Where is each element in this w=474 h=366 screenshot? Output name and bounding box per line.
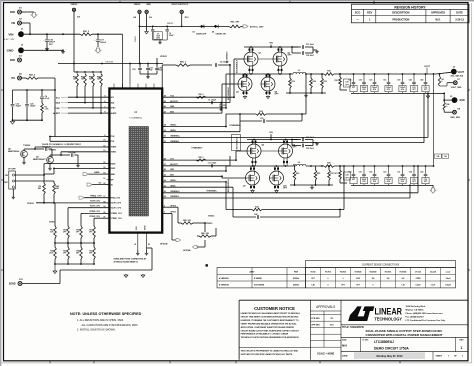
svg-text:C6: C6 <box>169 33 171 35</box>
approvals box divider <box>340 300 342 360</box>
svg-text:VOUT0_CFG: VOUT0_CFG <box>90 201 101 203</box>
wire VSENSE0+ <box>162 136 428 138</box>
resistor R19 <box>289 78 292 88</box>
U4 exposed pad hatch <box>129 127 149 217</box>
Q6 source legs <box>283 158 285 166</box>
svg-text:W.S.: W.S. <box>330 324 334 326</box>
jumper JP1 <box>9 171 16 189</box>
svg-text:425KHz: 425KHz <box>293 284 299 287</box>
svg-text:OPT: OPT <box>63 232 66 234</box>
svg-text:REV: REV <box>367 12 372 15</box>
svg-text:100uF: 100uF <box>372 87 377 89</box>
pullup rail wire <box>73 64 75 73</box>
current sense table marker dot <box>206 264 208 266</box>
svg-text:BSC050NE2LS: BSC050NE2LS <box>237 137 239 150</box>
resistor R2 1.1K <box>41 103 44 113</box>
Q3 source legs <box>242 91 244 95</box>
svg-text:CONVERTER WITH DIGITAL POWER M: CONVERTER WITH DIGITAL POWER MANAGEMENT <box>365 333 442 337</box>
svg-text:R50_2: R50_2 <box>83 31 90 33</box>
wire SGND route <box>22 283 60 285</box>
svg-text:SGND AND PGND CONNECTED AT: SGND AND PGND CONNECTED AT <box>114 258 147 261</box>
svg-text:18: 18 <box>103 206 105 208</box>
resistor R47 10K <box>84 74 87 87</box>
terminal J5 GND <box>452 97 458 103</box>
ground below C18 <box>46 47 48 48</box>
svg-text:SYNC: SYNC <box>111 108 117 110</box>
wire gate Q2 link <box>258 58 273 60</box>
svg-text:C39: C39 <box>397 80 400 82</box>
wire VOUT_SNS <box>447 82 453 84</box>
svg-text:DEMO CIRCUIT 1753A: DEMO CIRCUIT 1753A <box>374 346 409 350</box>
wire E4 down to VDD33 rail <box>73 11 75 63</box>
capacitor C11 boost <box>210 164 212 167</box>
phase0 vin rail <box>244 46 298 48</box>
size row divider <box>341 336 468 338</box>
svg-text:100uF: 100uF <box>362 179 367 181</box>
svg-text:TSNS0: TSNS0 <box>111 147 117 149</box>
transistor Q3 <box>238 77 252 91</box>
svg-text:CURRENT SENSE CONNECTIONS: CURRENT SENSE CONNECTIONS <box>362 265 400 267</box>
svg-text:C23: C23 <box>383 172 386 174</box>
svg-text:SCL: SCL <box>56 97 61 99</box>
wire VSENSE1- <box>162 197 410 199</box>
output cap bank top labels <box>350 86 357 92</box>
ground Q3 source <box>244 95 246 98</box>
ground under intvcc caps <box>153 39 168 41</box>
transistor Q2 OPT <box>273 52 287 66</box>
svg-text:100: 100 <box>387 278 390 280</box>
svg-text:5: 5 <box>104 96 105 98</box>
svg-text:SGND: SGND <box>9 284 16 286</box>
gray ground arrow below C17 <box>95 48 101 53</box>
svg-text:OPT: OPT <box>412 181 415 183</box>
svg-text:L1,L2: L1,L2 <box>446 272 450 274</box>
svg-text:C38 10uF: C38 10uF <box>306 55 314 57</box>
svg-text:C11: C11 <box>397 172 400 174</box>
resistor R14 sense path <box>162 126 226 128</box>
svg-text:100uF: 100uF <box>386 179 391 181</box>
svg-text:100pF: 100pF <box>30 106 36 108</box>
transistor Q8 MMBT3906L <box>21 151 28 158</box>
capacitor C38 10uF <box>291 47 293 53</box>
wire VIN phase0 down <box>270 45 272 47</box>
svg-text:VOUT1_CFG: VOUT1_CFG <box>90 206 101 208</box>
VOUT rail wire <box>352 73 436 75</box>
svg-text:16: 16 <box>103 167 105 169</box>
svg-text:C42: C42 <box>254 213 257 216</box>
svg-text:C13: C13 <box>260 118 263 120</box>
terminal E11 SGND <box>18 282 22 286</box>
wire VSENSE0- <box>162 142 424 144</box>
wire J2 ground rail <box>24 49 63 51</box>
current sense table key box <box>217 268 306 288</box>
ground triangle comp <box>12 120 14 121</box>
current sense table title cell <box>306 261 456 268</box>
svg-text:TECHNOLOGY APPLICATIONS ENGINE: TECHNOLOGY APPLICATIONS ENGINEERING FOR … <box>241 336 300 339</box>
date row divider <box>341 351 468 353</box>
svg-text:W.S.: W.S. <box>435 18 441 21</box>
phase0 SW rail <box>244 73 293 75</box>
svg-text:0: 0 <box>442 81 443 83</box>
config bottom bus wire <box>55 263 94 265</box>
svg-text:R13: R13 <box>89 230 92 232</box>
svg-text:0.002: 0.002 <box>356 278 360 280</box>
svg-text:15: 15 <box>103 162 105 164</box>
svg-text:25V: 25V <box>49 44 53 46</box>
svg-text:BSC010NE2LSI: BSC010NE2LSI <box>228 179 230 192</box>
svg-text:OPT: OPT <box>345 85 348 87</box>
resistor R48 10K <box>92 74 95 87</box>
svg-text:VOUT: VOUT <box>458 72 465 74</box>
svg-text:R48_10K: R48_10K <box>183 219 192 222</box>
current sense table value box <box>306 268 456 288</box>
svg-text:VDD33: VDD33 <box>206 223 213 225</box>
svg-text:10: 10 <box>103 140 105 142</box>
svg-text:THIS CIRCUIT IS PROPRIETARY TO: THIS CIRCUIT IS PROPRIETARY TO LINEAR TE… <box>241 349 299 352</box>
svg-text:D4: D4 <box>212 30 214 33</box>
svg-text:R33: R33 <box>63 251 66 253</box>
resistor R56 gate <box>196 96 206 98</box>
capacitor C27 1uF <box>147 64 149 68</box>
svg-text:D3: D3 <box>193 31 195 33</box>
resistor R25 <box>314 170 317 180</box>
svg-text:R56_0: R56_0 <box>199 94 204 96</box>
terminal E8 GND_SNS <box>453 110 457 114</box>
svg-text:C45: C45 <box>420 79 423 82</box>
resistor R50_OPT <box>229 25 241 28</box>
svg-text:OPT: OPT <box>89 232 92 234</box>
svg-text:0: 0 <box>328 278 329 280</box>
svg-text:GND: GND <box>10 60 15 62</box>
wire SDA <box>68 102 109 104</box>
svg-text:SIZE: SIZE <box>342 339 347 341</box>
revision history table box <box>352 4 470 23</box>
svg-text:GPIO1B: GPIO1B <box>160 244 168 246</box>
wire BOOST1 <box>162 165 230 167</box>
svg-text:APPLICATION. COMPONENT SUBSTIT: APPLICATION. COMPONENT SUBSTITUTION AND … <box>241 326 295 329</box>
svg-text:SCALE = NONE: SCALE = NONE <box>317 353 335 356</box>
svg-text:R24: R24 <box>313 80 316 83</box>
output cap bank bottom stubs <box>353 184 355 186</box>
svg-text:SUPPLIED FOR USE WITH LINEAR T: SUPPLIED FOR USE WITH LINEAR TECHNOLOGY … <box>241 353 293 356</box>
svg-text:VIN: VIN <box>269 43 273 45</box>
svg-text:DCR SENSE: DCR SENSE <box>254 285 265 287</box>
wire SCL <box>68 96 109 98</box>
svg-text:VDD33: VDD33 <box>49 221 56 223</box>
logo LT glyph <box>348 306 365 321</box>
capacitor C4 4.7nF <box>41 90 43 96</box>
wire VIN rail down to IC <box>122 34 124 88</box>
approvals grid <box>310 310 341 312</box>
svg-text:C24: C24 <box>409 171 412 174</box>
capacitor C13 sense <box>162 131 240 133</box>
Q3 drain legs <box>242 74 244 77</box>
capacitor C5 10uF <box>152 26 154 29</box>
svg-text:LTC3880EUJ: LTC3880EUJ <box>374 340 394 344</box>
vertical text BSC050NE2LS phase1 <box>232 135 241 151</box>
svg-text:A SINGLE NODE NEAR U1: A SINGLE NODE NEAR U1 <box>114 261 140 264</box>
wire BG0 gate bus <box>162 112 222 114</box>
svg-text:ITH0: ITH0 <box>111 136 115 138</box>
title block top border <box>239 299 468 301</box>
ground caps phase1 <box>313 142 317 144</box>
capacitor C18 100uF 25V <box>46 34 48 39</box>
Q2 drain legs <box>277 47 279 52</box>
svg-text:R11,R31: R11,R31 <box>385 272 392 274</box>
wire sense to vout <box>334 73 352 75</box>
svg-text:C30 10uF: C30 10uF <box>306 137 314 139</box>
Q10 source legs <box>274 185 276 189</box>
svg-text:17: 17 <box>103 196 105 198</box>
svg-text:VIN: VIN <box>11 23 15 25</box>
Q10 drain legs <box>274 166 276 171</box>
svg-text:R18,R24: R18,R24 <box>355 271 362 274</box>
svg-text:EXTVCC_DRV: EXTVCC_DRV <box>250 27 264 29</box>
capacitor C20 100pF <box>26 90 28 104</box>
svg-text:C28: C28 <box>345 175 348 177</box>
svg-text:MMBT3906L: MMBT3906L <box>8 151 20 153</box>
svg-text:100uF: 100uF <box>400 179 405 181</box>
svg-text:TITLE: SCHEMATIC: TITLE: SCHEMATIC <box>342 326 364 329</box>
svg-text:R18: R18 <box>334 80 337 82</box>
svg-text:Milpitas, CA 95035: Milpitas, CA 95035 <box>406 309 425 312</box>
svg-text:COL: COL <box>412 87 415 89</box>
svg-text:VOUT1_CFG: VOUT1_CFG <box>111 207 122 209</box>
svg-text:SDA: SDA <box>56 102 61 105</box>
svg-text:CP-C20: CP-C20 <box>415 272 421 274</box>
wire BG1 gate bus <box>162 175 222 177</box>
ground phase0 sense <box>305 94 307 95</box>
ground under bypass caps <box>140 73 157 75</box>
wire BOOST0 <box>162 102 230 104</box>
svg-text:LTC Confidential-For Customer: LTC Confidential-For Customer Use Only <box>406 319 447 322</box>
svg-text:1.1K: 1.1K <box>45 109 50 111</box>
wire GPIO0 <box>162 206 178 208</box>
title row divider <box>341 324 468 326</box>
svg-text:R50_1: R50_1 <box>180 62 187 64</box>
svg-text:R SENSE: R SENSE <box>254 278 263 280</box>
resistor R32 sense path <box>162 181 226 183</box>
svg-text:TECHNOLOGY: TECHNOLOGY <box>375 317 403 322</box>
svg-text:C33: C33 <box>369 80 372 82</box>
svg-text:N/A: N/A <box>342 344 348 348</box>
svg-text:100: 100 <box>372 278 375 280</box>
wire ALERT <box>68 112 109 114</box>
svg-text:C16: C16 <box>383 80 386 82</box>
capacitor C32 10uF <box>291 140 293 146</box>
svg-text:TSNS0: TSNS0 <box>23 145 31 147</box>
ground phase1 sense <box>311 186 313 187</box>
capacitor C12 1000pF <box>12 90 14 104</box>
svg-text:REV: REV <box>459 339 464 341</box>
svg-text:C1_100pF: C1_100pF <box>208 99 216 101</box>
resistor R44 10K <box>181 222 193 225</box>
capacitor C29 1uF <box>139 64 141 68</box>
svg-text:100uF: 100uF <box>372 179 377 181</box>
svg-text:VDD33: VDD33 <box>208 216 215 218</box>
svg-text:GOL: GOL <box>401 89 405 91</box>
svg-text:VIN: VIN <box>269 132 273 134</box>
svg-text:INTVCC/EXTVCC: INTVCC/EXTVCC <box>172 4 189 6</box>
capacitor C6 100nF <box>166 26 168 29</box>
svg-text:100uF: 100uF <box>100 42 107 44</box>
terminal J4 VOUT <box>451 69 457 75</box>
svg-text:APPROVALS: APPROVALS <box>316 305 335 309</box>
resistor R23 <box>321 78 324 88</box>
svg-text:VDD33: VDD33 <box>27 203 35 205</box>
svg-text:APPROVED: APPROVED <box>431 12 445 15</box>
wire L2 to sense <box>306 165 324 167</box>
svg-text:D16: D16 <box>362 89 365 91</box>
svg-text:OPT: OPT <box>352 179 355 181</box>
config resistor row 2 <box>54 247 57 259</box>
svg-text:C20: C20 <box>345 82 348 84</box>
ground Q7 source <box>252 189 254 192</box>
Q1 drain legs <box>248 47 250 52</box>
scan shading top edge <box>0 0 474 1</box>
Q2 source legs <box>277 66 279 74</box>
svg-text:2. INSTALL SHUNTS AS SHOWN.: 2. INSTALL SHUNTS AS SHOWN. <box>77 329 116 332</box>
svg-text:ASEL: ASEL <box>94 171 100 174</box>
svg-text:DATE:: DATE: <box>342 355 348 358</box>
svg-text:0.56uH: 0.56uH <box>445 285 451 287</box>
svg-text:BSC050NE2LS: BSC050NE2LS <box>237 59 239 73</box>
transistor Q1 <box>244 52 258 66</box>
wire TSNS1 <box>61 151 109 153</box>
svg-text:GOL: GOL <box>387 89 391 91</box>
wire RUN0 <box>14 174 44 176</box>
sheet cell <box>432 352 434 360</box>
capacitor C42 sense <box>162 186 233 188</box>
resistor R26 sense <box>324 165 334 168</box>
svg-text:CMDSH-3TR: CMDSH-3TR <box>196 34 207 36</box>
resistor R45 10K <box>204 223 206 232</box>
resistor R36 sns <box>443 102 445 110</box>
U4 bottom pin stubs <box>137 233 139 250</box>
svg-text:VERIFY PROPER AND RELIABLE OPE: VERIFY PROPER AND RELIABLE OPERATION IN … <box>241 322 298 325</box>
capacitor C2 100pF <box>214 63 216 67</box>
svg-text:LINEAR TECHNOLOGY HAS MADE A B: LINEAR TECHNOLOGY HAS MADE A BEST EFFORT… <box>241 312 301 315</box>
wire TSNS0 <box>35 146 109 148</box>
Q7 source legs <box>250 185 252 189</box>
wire E1 to arrow <box>21 11 34 13</box>
config mid bus wire <box>55 242 94 244</box>
svg-text:R58_0: R58_0 <box>199 157 204 159</box>
svg-text:R36: R36 <box>446 104 449 106</box>
svg-text:0.4uH: 0.4uH <box>446 277 451 280</box>
svg-text:R18: R18 <box>76 230 79 232</box>
svg-text:FREQ_CFG: FREQ_CFG <box>90 196 102 198</box>
svg-text:OPT: OPT <box>76 232 79 234</box>
svg-text:GND: GND <box>460 100 465 102</box>
config resistor row 1 <box>54 226 57 238</box>
svg-text:VDD33: VDD33 <box>160 56 168 58</box>
svg-text:100uF: 100uF <box>400 87 405 89</box>
svg-text:7: 7 <box>104 106 105 108</box>
svg-text:4.5V - 24V: 4.5V - 24V <box>4 39 15 41</box>
svg-text:REVISION HISTORY: REVISION HISTORY <box>394 5 426 9</box>
capacitor C48 OPT box <box>435 154 442 158</box>
svg-text:ITH1: ITH1 <box>111 141 115 143</box>
svg-text:R16: R16 <box>63 230 66 232</box>
svg-text:OPT: OPT <box>352 87 355 89</box>
svg-text:C21: C21 <box>359 172 362 174</box>
svg-text:SC: SC <box>99 182 102 184</box>
ground pgnd pin <box>146 250 148 252</box>
svg-text:R25: R25 <box>317 173 320 175</box>
svg-text:OPT: OPT <box>76 253 79 255</box>
svg-text:R37: R37 <box>89 251 92 253</box>
wire GPIO1 <box>162 212 172 214</box>
svg-text:PERFORMANCE OR RELIABILITY. CO: PERFORMANCE OR RELIABILITY. CONTACT LINE… <box>241 333 289 336</box>
ground triangle sgnd <box>125 274 127 275</box>
svg-text:Fax: (408)434-0507: Fax: (408)434-0507 <box>406 316 425 319</box>
output gnd rail top <box>427 93 429 95</box>
svg-text:A VERSION:: A VERSION: <box>219 277 230 280</box>
svg-text:C25: C25 <box>223 105 226 107</box>
svg-text:R58_5: R58_5 <box>29 74 36 76</box>
svg-text:COL: COL <box>424 87 427 89</box>
svg-text:OPT: OPT <box>424 181 427 183</box>
capacitor C15 10pF <box>35 148 44 150</box>
ground triangle config <box>54 264 56 270</box>
wire SW1 bus <box>162 170 226 172</box>
wire vout join vertical <box>433 74 435 166</box>
U4 right pin stubs <box>162 96 165 98</box>
wire ITH0 <box>55 136 109 138</box>
resistor R16 sense <box>324 73 334 76</box>
svg-text:C43: C43 <box>409 79 412 82</box>
svg-text:Monday, May 07, 2012: Monday, May 07, 2012 <box>377 355 404 358</box>
ground under run resistors <box>36 202 54 204</box>
svg-text:VDD33: VDD33 <box>135 36 137 42</box>
resistor R50_2 <box>80 33 92 36</box>
wire gate Q6 link <box>261 150 279 152</box>
svg-text:APP ENG: APP ENG <box>311 323 320 326</box>
svg-text:100uF: 100uF <box>386 87 391 89</box>
svg-text:0: 0 <box>343 278 344 280</box>
svg-text:OPT: OPT <box>63 253 66 255</box>
svg-text:VDD33: VDD33 <box>167 23 174 25</box>
wire SYNC <box>68 107 109 109</box>
ground Q4 source <box>267 95 269 98</box>
capacitor C1 boost <box>210 101 212 104</box>
svg-text:GOL: GOL <box>387 181 391 183</box>
terminal E2 VIN <box>18 21 22 25</box>
svg-text:1uF: 1uF <box>150 70 153 72</box>
phase1 SW rail <box>247 165 293 167</box>
capacitor C49 OPT box <box>442 154 449 158</box>
svg-text:CIRCUIT THAT MEETS CUSTOMER-SU: CIRCUIT THAT MEETS CUSTOMER-SUPPLIED SPE… <box>241 316 299 319</box>
svg-text:0: 0 <box>446 106 447 108</box>
svg-text:DESCRIPTION: DESCRIPTION <box>392 12 409 15</box>
wire intvcc down to IC corner <box>161 65 163 89</box>
svg-text:B VERSION:: B VERSION: <box>219 285 230 287</box>
svg-text:ALERT: ALERT <box>111 112 118 115</box>
wire C18 gnd join <box>46 47 48 50</box>
svg-text:11: 11 <box>103 178 105 180</box>
svg-text:CUSTOMER NOTICE: CUSTOMER NOTICE <box>254 306 295 311</box>
terminal E5 ITH <box>18 76 22 80</box>
svg-text:21: 21 <box>103 217 105 219</box>
ground caps phase0 <box>313 49 317 51</box>
capacitor C25 intvcc <box>220 103 222 105</box>
resistor R27 <box>328 170 331 180</box>
diode D4 CMDSH-3TR <box>215 25 218 28</box>
ground under Q9 <box>49 167 51 168</box>
svg-text:R32: R32 <box>255 207 258 209</box>
gray arrow EXTVCC_DRV <box>241 25 243 27</box>
